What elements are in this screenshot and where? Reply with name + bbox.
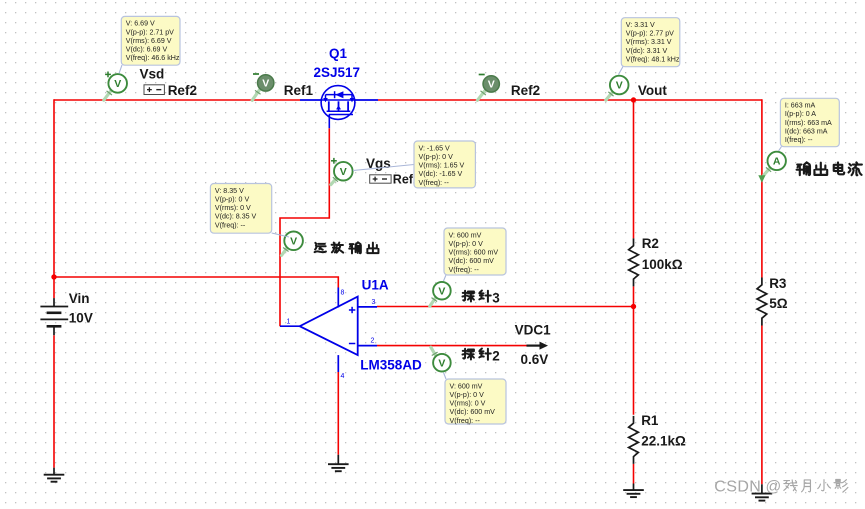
- svg-text:V(p-p): 0 V: V(p-p): 0 V: [450, 391, 485, 399]
- svg-text:CSDN: CSDN: [714, 479, 761, 496]
- svg-text:3: 3: [492, 291, 500, 306]
- svg-text:Vout: Vout: [638, 83, 667, 98]
- svg-text:Vin: Vin: [69, 291, 90, 306]
- svg-text:V(dc): 600 mV: V(dc): 600 mV: [449, 257, 495, 265]
- svg-text:I(p-p): 0 A: I(p-p): 0 A: [785, 110, 816, 118]
- svg-text:0.6V: 0.6V: [521, 352, 549, 367]
- svg-text:V(freq): --: V(freq): --: [215, 221, 246, 229]
- svg-text:Ref2: Ref2: [168, 83, 197, 98]
- svg-text:V(rms): 1.65 V: V(rms): 1.65 V: [419, 162, 465, 170]
- svg-text:V(p-p): 2.77 pV: V(p-p): 2.77 pV: [626, 30, 674, 38]
- svg-text:R1: R1: [641, 413, 659, 428]
- svg-text:LM358AD: LM358AD: [360, 358, 422, 373]
- svg-text:V: V: [340, 166, 347, 178]
- svg-text:22.1kΩ: 22.1kΩ: [641, 434, 686, 449]
- svg-text:V(rms): 6.69 V: V(rms): 6.69 V: [126, 37, 172, 45]
- svg-text:1: 1: [287, 319, 291, 326]
- svg-text:V: 600 mV: V: 600 mV: [449, 231, 482, 239]
- svg-text:V: -1.65 V: V: -1.65 V: [419, 144, 451, 152]
- svg-text:2: 2: [371, 338, 375, 345]
- svg-text:Q1: Q1: [329, 46, 348, 61]
- svg-text:V(p-p): 0 V: V(p-p): 0 V: [449, 240, 484, 248]
- svg-text:V(rms): 0 V: V(rms): 0 V: [450, 400, 486, 408]
- svg-text:8: 8: [341, 290, 345, 297]
- svg-text:U1A: U1A: [362, 278, 389, 293]
- svg-text:V(freq): --: V(freq): --: [450, 417, 481, 425]
- svg-text:V(rms): 600 mV: V(rms): 600 mV: [449, 249, 499, 257]
- svg-text:I(rms): 663 mA: I(rms): 663 mA: [785, 119, 832, 127]
- svg-text:R3: R3: [769, 276, 787, 291]
- svg-text:4: 4: [341, 373, 345, 380]
- svg-text:V: V: [114, 78, 121, 90]
- svg-text:V(freq): --: V(freq): --: [449, 266, 480, 274]
- svg-text:A: A: [773, 156, 781, 168]
- svg-text:Ref2: Ref2: [511, 83, 540, 98]
- svg-text:V: 3.31 V: V: 3.31 V: [626, 21, 655, 29]
- svg-text:V(freq): --: V(freq): --: [419, 179, 450, 187]
- svg-text:V: 600 mV: V: 600 mV: [450, 382, 483, 390]
- svg-text:I: 663 mA: I: 663 mA: [785, 102, 816, 110]
- svg-text:V(dc): -1.65 V: V(dc): -1.65 V: [419, 170, 463, 178]
- svg-text:2: 2: [492, 349, 500, 364]
- svg-text:V(rms): 0 V: V(rms): 0 V: [215, 204, 251, 212]
- svg-text:2SJ517: 2SJ517: [314, 65, 361, 80]
- svg-text:VDC1: VDC1: [515, 323, 552, 338]
- svg-text:V(p-p): 0 V: V(p-p): 0 V: [419, 153, 454, 161]
- svg-text:V(freq): 46.6 kHz: V(freq): 46.6 kHz: [126, 54, 180, 62]
- svg-text:Ref1: Ref1: [284, 83, 314, 98]
- svg-text:V(dc): 600 mV: V(dc): 600 mV: [450, 408, 496, 416]
- svg-text:V(p-p): 2.71 pV: V(p-p): 2.71 pV: [126, 28, 174, 36]
- svg-text:V(freq): 48.1 kHz: V(freq): 48.1 kHz: [626, 55, 680, 63]
- svg-text:V: V: [488, 79, 495, 91]
- svg-text:V(p-p): 0 V: V(p-p): 0 V: [215, 195, 250, 203]
- svg-text:V: V: [616, 80, 623, 92]
- svg-text:I(dc): 663 mA: I(dc): 663 mA: [785, 127, 828, 135]
- svg-text:V: 6.69 V: V: 6.69 V: [126, 20, 155, 28]
- svg-text:R2: R2: [642, 236, 659, 251]
- svg-text:V(rms): 3.31 V: V(rms): 3.31 V: [626, 38, 672, 46]
- svg-text:10V: 10V: [69, 311, 93, 326]
- svg-text:V(dc): 6.69 V: V(dc): 6.69 V: [126, 46, 168, 54]
- svg-text:V(dc): 3.31 V: V(dc): 3.31 V: [626, 47, 668, 55]
- svg-text:3: 3: [372, 299, 376, 306]
- svg-text:V: V: [438, 357, 445, 369]
- svg-text:V: V: [262, 78, 269, 90]
- svg-text:Vsd: Vsd: [140, 67, 165, 82]
- svg-text:I(freq): --: I(freq): --: [785, 136, 813, 144]
- svg-text:V: V: [290, 235, 297, 247]
- svg-text:@: @: [766, 479, 782, 496]
- svg-text:V: 8.35 V: V: 8.35 V: [215, 187, 244, 195]
- svg-text:V(dc): 8.35 V: V(dc): 8.35 V: [215, 213, 257, 221]
- svg-text:V: V: [438, 285, 445, 297]
- svg-text:5Ω: 5Ω: [769, 296, 788, 311]
- svg-text:100kΩ: 100kΩ: [642, 257, 683, 272]
